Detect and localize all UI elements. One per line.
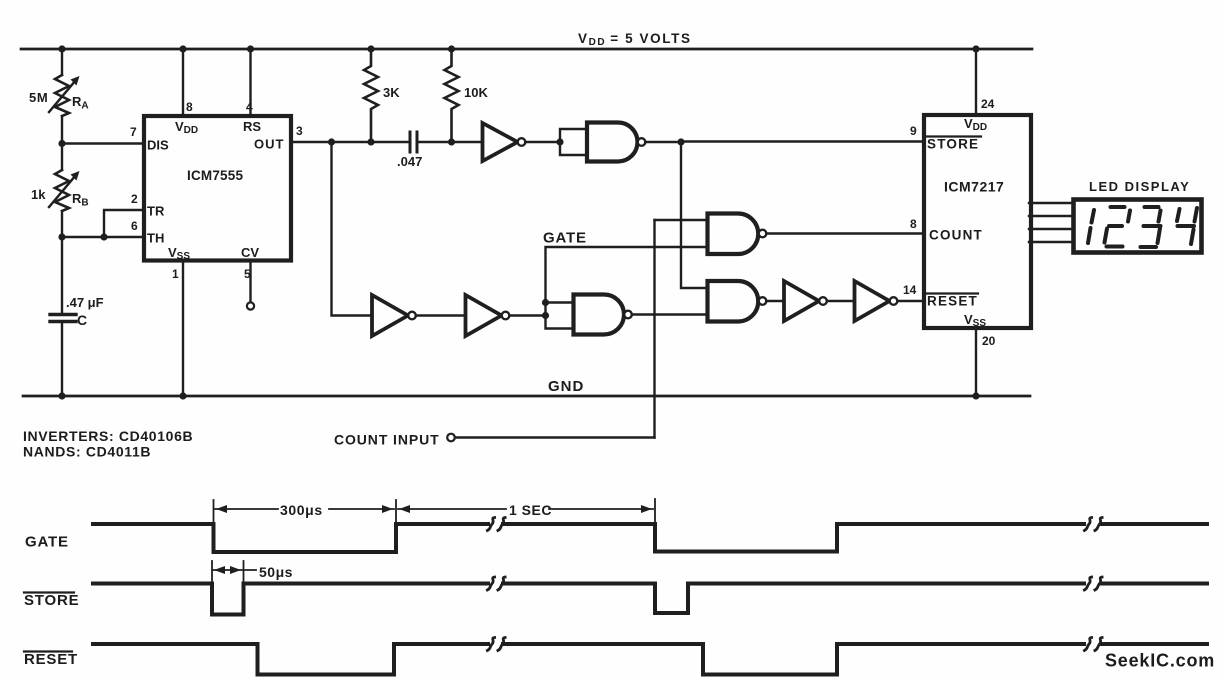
- svg-text:RESET: RESET: [24, 651, 78, 668]
- watermark SeekIC.com: [1105, 651, 1215, 671]
- dimension line 50us: [213, 566, 256, 574]
- net label GND: [548, 378, 584, 395]
- pin label RESET with overline: [927, 294, 978, 309]
- svg-text:14: 14: [903, 283, 917, 297]
- wire: NAND1 input bracket: [560, 129, 587, 155]
- inverter F (RESET row): [855, 281, 890, 321]
- inverter E (RESET row): [784, 281, 819, 321]
- label 5M: [29, 90, 48, 105]
- timing label STORE with overline: [24, 592, 79, 609]
- ground rail GND: [23, 395, 1030, 398]
- label ICM7555: [187, 168, 243, 183]
- label 300us: [280, 502, 323, 518]
- node: rail junction 10K column: [448, 45, 455, 52]
- svg-text:5M: 5M: [29, 90, 48, 105]
- label RA: [72, 94, 89, 112]
- svg-text:7: 7: [130, 125, 137, 139]
- pin label TH: [147, 231, 164, 246]
- wire: COUNT NAND upper input from count-input riser: [655, 219, 708, 221]
- wire: 3K node to capacitor .047: [371, 141, 408, 143]
- note NANDS: CD4011B: [23, 444, 151, 460]
- break mark on GATE end: [1084, 518, 1102, 531]
- dimension tick at STORE rise: [243, 561, 245, 583]
- svg-text:9: 9: [910, 124, 917, 138]
- inverter C (GATE row): [372, 295, 408, 336]
- pin number 5: [244, 267, 251, 281]
- node: GATE junction upper: [542, 299, 549, 306]
- dimension tick at second GATE fall: [654, 499, 656, 522]
- node: ground junction pin 20 column: [972, 392, 979, 399]
- net label GATE: [543, 230, 587, 247]
- node: rail junction pin 8 column: [179, 45, 186, 52]
- wire: 10K node to inverter A: [452, 141, 483, 143]
- break mark on STORE end: [1084, 577, 1102, 590]
- pin number 4: [246, 100, 253, 114]
- wire: OUT pin 3 to first junction: [291, 141, 332, 143]
- pin label DIS: [147, 138, 169, 153]
- seven-segment digit 2: [1105, 207, 1131, 247]
- node: DIS junction: [58, 140, 65, 147]
- svg-text:SeekIC.com: SeekIC.com: [1105, 651, 1215, 671]
- NAND gate 4 (RESET NAND): [708, 281, 759, 322]
- svg-text:.047: .047: [397, 154, 422, 169]
- svg-text:GATE: GATE: [25, 534, 69, 551]
- wire: display data line 3: [1029, 228, 1071, 230]
- wire: OUT junction to 3K node: [332, 141, 372, 143]
- label LED DISPLAY: [1089, 179, 1190, 194]
- pin number 20: [982, 334, 996, 348]
- node: GATE junction lower: [542, 312, 549, 319]
- svg-text:NANDS: CD4011B: NANDS: CD4011B: [23, 444, 151, 460]
- dimension line 1 SEC: [398, 505, 653, 513]
- svg-text:8: 8: [910, 217, 917, 231]
- wire: RA to DIS node: [61, 116, 63, 144]
- pin label VDD: [175, 119, 198, 136]
- seven-segment digit 4: [1177, 208, 1197, 244]
- waveform RESET: [93, 644, 1207, 675]
- pin number 8: [186, 100, 193, 114]
- wire: capacitor C to ground rail: [61, 323, 63, 396]
- node: rail junction 3K column: [367, 45, 374, 52]
- wire: STORE junction to ICM7217 pin 9: [681, 140, 922, 142]
- svg-text:VDD= 5 VOLTS: VDD= 5 VOLTS: [578, 31, 692, 48]
- pin 20 wire (VSS to ground): [975, 330, 977, 396]
- seven-segment digit 1: [1088, 210, 1094, 243]
- svg-text:3: 3: [296, 124, 303, 138]
- svg-text:DIS: DIS: [147, 138, 169, 153]
- NAND gate 2 (GATE NAND): [574, 295, 625, 335]
- svg-text:RA: RA: [72, 94, 89, 112]
- resistor RB (variable, 1k): [49, 170, 80, 211]
- pin label RS: [243, 119, 261, 134]
- wire: display data line 2: [1029, 215, 1071, 217]
- IC U2 ICM7217 box: [924, 115, 1031, 328]
- wire: GATE node up to GATE line: [546, 247, 708, 303]
- pin label VSS (7217): [964, 312, 986, 329]
- pin 4 wire (RS): [249, 49, 251, 114]
- terminal: CV open circle: [247, 302, 254, 309]
- pin number 3: [296, 124, 303, 138]
- pin number 1: [172, 267, 179, 281]
- pin number 2: [131, 192, 138, 206]
- pin 8 wire (VDD): [182, 49, 184, 114]
- node: OUT junction to inverter row: [328, 138, 335, 145]
- svg-text:20: 20: [982, 334, 996, 348]
- svg-text:COUNT: COUNT: [929, 228, 983, 243]
- node: 10K bottom junction: [448, 138, 455, 145]
- dimension tick at GATE fall: [213, 500, 215, 522]
- label 1k: [31, 187, 46, 202]
- pin label VDD (7217): [964, 116, 987, 133]
- svg-text:GND: GND: [548, 378, 584, 395]
- wire: OUT junction down to GATE inverter row: [332, 142, 373, 316]
- dimension tick at STORE fall: [211, 561, 213, 583]
- pin number 7: [130, 125, 137, 139]
- svg-text:ICM7217: ICM7217: [944, 179, 1004, 195]
- VDD power rail: [21, 48, 1032, 51]
- node: NAND1 tied-input junction: [556, 138, 563, 145]
- pin 1 wire (VSS to ground): [182, 263, 184, 397]
- wire: STORE junction down to RESET NAND upper input: [681, 142, 707, 288]
- wire: GATE NAND output to RESET NAND lower input: [632, 313, 707, 315]
- node: ground junction pin 1 column: [179, 392, 186, 399]
- wire: NAND1 output to STORE junction: [646, 141, 682, 143]
- wire: display data line 4: [1029, 241, 1071, 243]
- label 3K: [383, 85, 400, 100]
- dimension tick at GATE rise: [395, 500, 397, 522]
- pin label OUT: [254, 137, 284, 152]
- wire: inverter C to inverter D: [416, 314, 466, 316]
- node: 3K bottom junction: [367, 138, 374, 145]
- net label VDD = 5 VOLTS: [578, 31, 692, 48]
- label COUNT INPUT: [334, 432, 440, 448]
- wire: DIS node to RB: [61, 144, 63, 171]
- node: TH junction: [58, 233, 65, 240]
- label RB: [72, 191, 89, 209]
- node: rail junction pin 4 column: [247, 45, 254, 52]
- svg-text:TR: TR: [147, 204, 165, 219]
- wire: COUNT INPUT lead: [455, 436, 655, 438]
- break mark on RESET end: [1084, 638, 1102, 651]
- svg-text:VDD: VDD: [175, 119, 198, 136]
- wire: inverter E to inverter F: [827, 300, 855, 302]
- svg-text:10K: 10K: [464, 85, 488, 100]
- node: rail junction ICM7217 VDD column: [972, 45, 979, 52]
- svg-text:ICM7555: ICM7555: [187, 168, 243, 183]
- svg-text:TH: TH: [147, 231, 164, 246]
- NAND gate 3 (COUNT NAND): [708, 214, 759, 255]
- svg-text:1 SEC: 1 SEC: [509, 502, 552, 518]
- wire: RB to TH node: [61, 211, 63, 237]
- label 50us: [259, 564, 293, 580]
- svg-text:6: 6: [131, 219, 138, 233]
- wire: TR branch up and to pin 2: [104, 210, 142, 237]
- pin label CV: [241, 245, 259, 260]
- pin 5 wire (CV): [249, 263, 251, 303]
- wire: inverter A to NAND1 input node: [526, 141, 561, 143]
- wire: DIS node to ICM7555 pin 7: [62, 142, 142, 144]
- svg-text:24: 24: [981, 97, 995, 111]
- svg-text:OUT: OUT: [254, 137, 284, 152]
- timing label RESET with overline: [24, 651, 78, 668]
- break mark on GATE first high: [487, 518, 505, 531]
- wire: rail to RA: [61, 49, 63, 75]
- pin number 9: [910, 124, 917, 138]
- svg-text:RS: RS: [243, 119, 261, 134]
- svg-text:RB: RB: [72, 191, 89, 209]
- svg-text:STORE: STORE: [24, 592, 79, 609]
- pin 24 wire (VDD): [975, 49, 977, 113]
- label 10K: [464, 85, 488, 100]
- wire: RESET NAND output to inverter E: [767, 300, 785, 302]
- pin number 8: [910, 217, 917, 231]
- break mark on STORE middle: [487, 577, 505, 590]
- wire: COUNT NAND output to ICM7217 pin 8: [767, 232, 923, 234]
- capacitor C .47uF: [50, 315, 76, 322]
- waveform STORE: [93, 584, 1207, 615]
- timing label GATE: [25, 534, 69, 551]
- svg-text:C: C: [77, 312, 87, 328]
- pin label TR: [147, 204, 165, 219]
- svg-text:8: 8: [186, 100, 193, 114]
- svg-text:COUNT INPUT: COUNT INPUT: [334, 432, 440, 448]
- svg-text:1: 1: [172, 267, 179, 281]
- node: ground junction at C column: [58, 392, 65, 399]
- svg-text:300μs: 300μs: [280, 502, 323, 518]
- NAND gate 1 (STORE): [587, 123, 637, 162]
- resistor 3K: [364, 49, 378, 142]
- wire: GATE NAND input bracket: [546, 303, 574, 329]
- resistor 10K: [445, 49, 459, 142]
- wire: count input riser: [653, 220, 655, 438]
- svg-text:LED DISPLAY: LED DISPLAY: [1089, 179, 1190, 194]
- wire: capacitor .047 to 10K node: [419, 141, 452, 143]
- note INVERTERS: CD40106B: [23, 428, 193, 444]
- resistor RA (variable, 5M): [49, 75, 80, 116]
- svg-text:INVERTERS: CD40106B: INVERTERS: CD40106B: [23, 428, 193, 444]
- capacitor .047: [410, 132, 417, 152]
- node: STORE junction: [677, 138, 684, 145]
- wire: TH node down to capacitor C: [61, 237, 63, 313]
- pin label STORE with overline: [927, 137, 979, 152]
- svg-text:STORE: STORE: [927, 137, 979, 152]
- wire: TH node to ICM7555 pin 6: [62, 236, 142, 238]
- svg-text:VDD: VDD: [964, 116, 987, 133]
- pin label VSS: [168, 245, 190, 262]
- inverter A (OUT row): [483, 123, 518, 161]
- svg-text:GATE: GATE: [543, 230, 587, 247]
- label 1 SEC: [509, 502, 552, 518]
- break mark on RESET middle: [487, 638, 505, 651]
- label .047: [397, 154, 422, 169]
- svg-text:VSS: VSS: [964, 312, 986, 329]
- node: rail junction at RA column: [58, 45, 65, 52]
- svg-text:.47 μF: .47 μF: [66, 295, 104, 310]
- pin number 24: [981, 97, 995, 111]
- wire: inverter D to GATE node: [510, 314, 546, 316]
- wire: inverter F to ICM7217 pin 14: [898, 300, 923, 302]
- svg-text:RESET: RESET: [927, 294, 978, 309]
- seven-segment digit 3: [1141, 207, 1161, 247]
- svg-text:50μs: 50μs: [259, 564, 293, 580]
- svg-text:2: 2: [131, 192, 138, 206]
- label ICM7217: [944, 179, 1004, 195]
- waveform GATE: [93, 524, 1207, 552]
- svg-text:3K: 3K: [383, 85, 400, 100]
- pin number 6: [131, 219, 138, 233]
- dimension line 300us: [215, 505, 394, 513]
- svg-text:4: 4: [246, 100, 253, 114]
- label C: [77, 312, 87, 328]
- svg-text:VSS: VSS: [168, 245, 190, 262]
- svg-text:5: 5: [244, 267, 251, 281]
- label .47 uF: [66, 295, 104, 310]
- terminal: COUNT INPUT open circle: [447, 434, 455, 442]
- pin number 14: [903, 283, 917, 297]
- svg-text:CV: CV: [241, 245, 259, 260]
- inverter D (GATE row): [466, 295, 502, 336]
- svg-text:1k: 1k: [31, 187, 46, 202]
- LED display module box: [1074, 200, 1202, 253]
- op IC U1 ICM7555 box: [144, 116, 291, 261]
- node: TR branch junction: [100, 233, 107, 240]
- wire: display data line 1: [1029, 202, 1071, 204]
- pin label COUNT: [929, 228, 983, 243]
